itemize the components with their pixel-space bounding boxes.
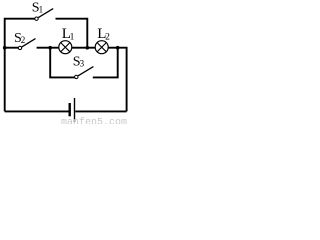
- wire bottom right (battery to right corner): [75, 110, 126, 112]
- wire node A to L1: [50, 47, 59, 49]
- wire S3 branch right riser: [93, 48, 118, 78]
- wire left vertical (main): [4, 47, 6, 112]
- switch S2 pivot circle: [18, 46, 21, 49]
- wire S3 branch left riser: [50, 48, 74, 78]
- wire L2 to node C: [108, 47, 118, 49]
- node C junction (dot): [116, 46, 120, 50]
- wire L1 to node B: [72, 47, 88, 49]
- svg-text:manfen5.com: manfen5.com: [61, 116, 127, 124]
- wire S2 to node A: [37, 47, 51, 49]
- wire bottom left (to battery): [5, 110, 69, 112]
- switch S3 pivot circle: [75, 75, 78, 78]
- battery negative plate (short thick): [68, 103, 70, 116]
- lamp L2: [95, 41, 108, 54]
- switch S3 blade: [78, 67, 93, 76]
- battery positive plate (long thin): [74, 98, 76, 122]
- switch S2 blade: [22, 39, 36, 47]
- switch S1 blade: [38, 9, 53, 18]
- wire top-left horizontal (battery+ to S1): [5, 19, 35, 48]
- wire top-right horizontal after S1: [56, 19, 88, 47]
- wire node B to L2: [87, 47, 95, 49]
- node junction left (dot): [3, 46, 7, 50]
- switch S1 pivot circle: [35, 17, 38, 20]
- node B junction (dot): [86, 46, 90, 50]
- wire node C to right side down: [118, 48, 127, 112]
- node A junction (dot): [48, 46, 52, 50]
- wire lamp-row to S2: [5, 47, 19, 49]
- lamp L1: [59, 41, 72, 54]
